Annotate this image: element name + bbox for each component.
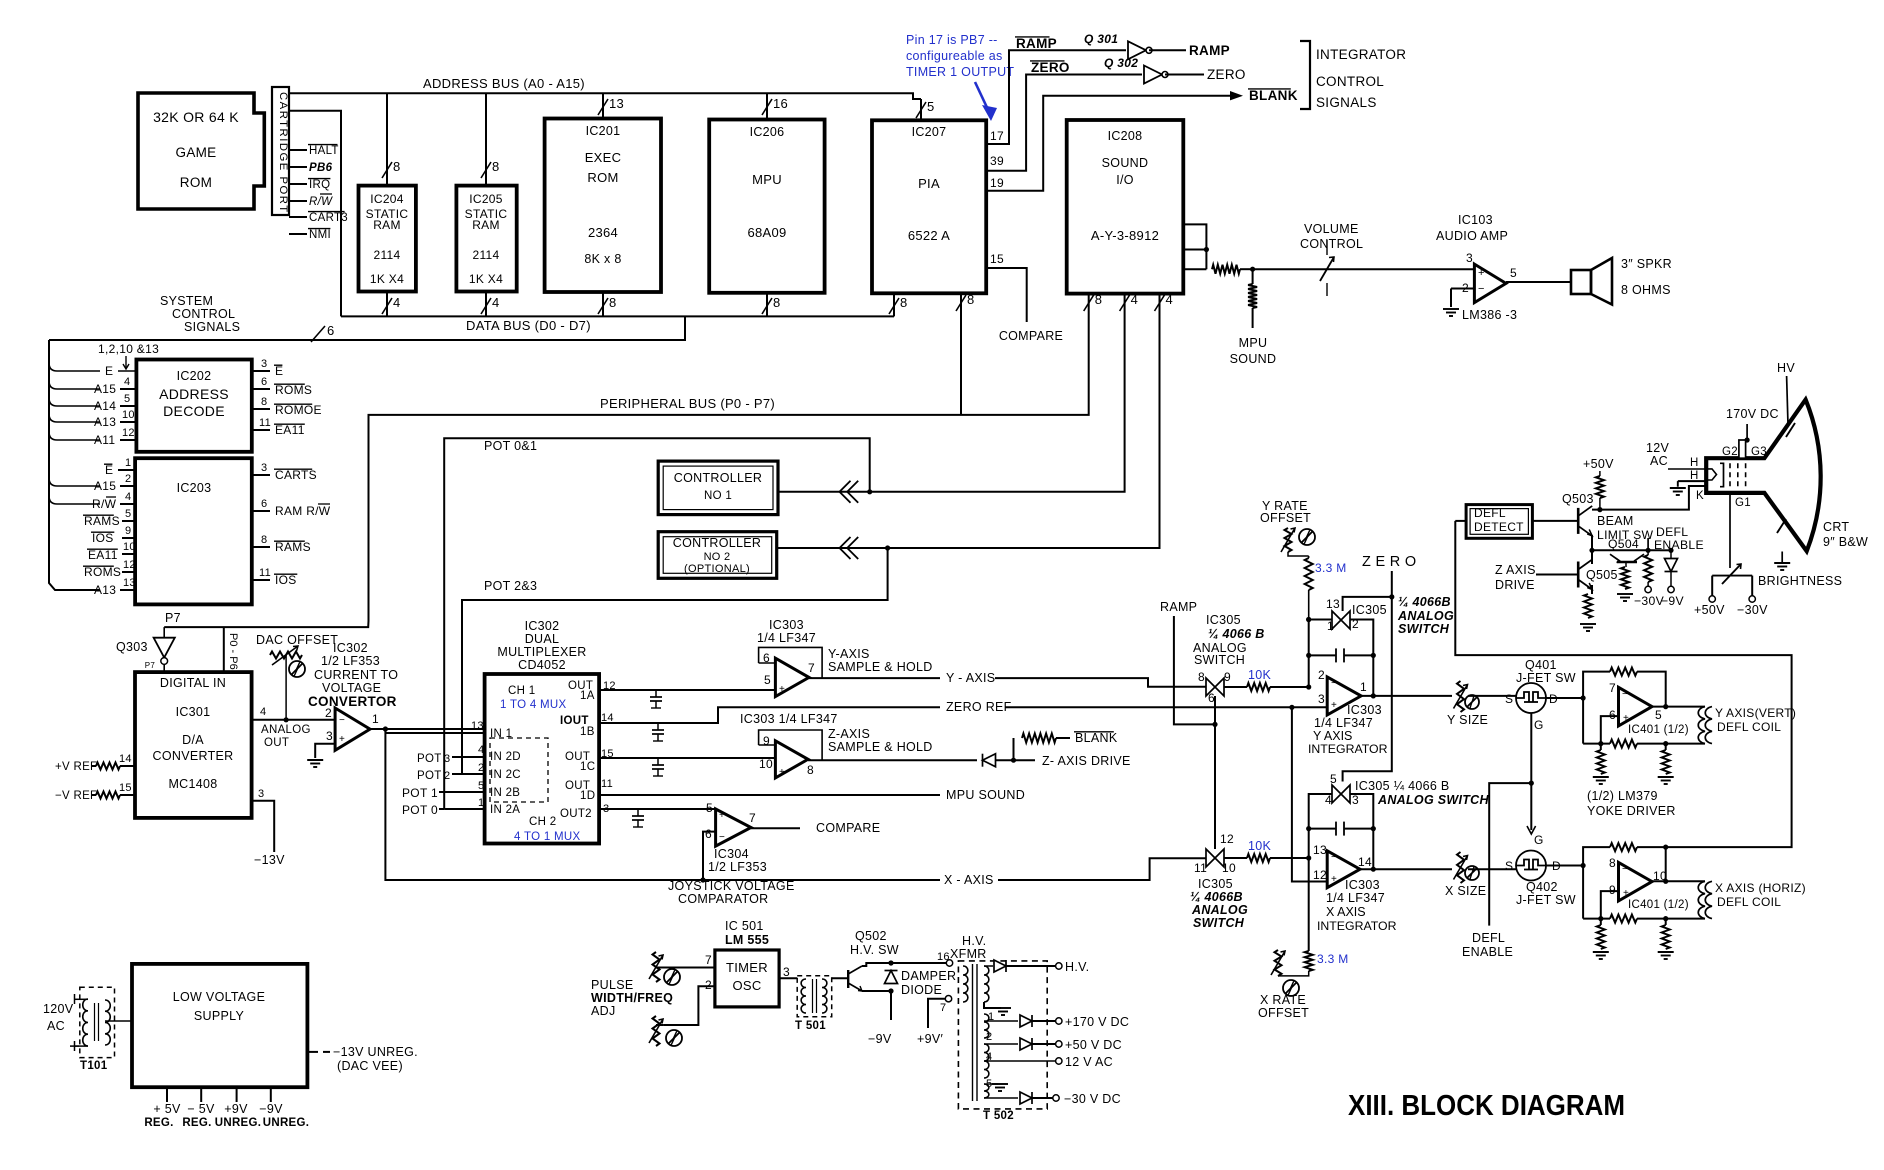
svg-text:−9V: −9V: [1661, 594, 1684, 608]
op-amp Z sample hold: [759, 730, 823, 778]
label Z-axis sample hold: [828, 727, 933, 754]
brightness pot: [1709, 564, 1755, 602]
svg-text:X RATE: X RATE: [1260, 993, 1306, 1007]
diode z-axis: [983, 754, 1017, 767]
svg-text:Q303: Q303: [116, 640, 148, 654]
svg-text:R/W: R/W: [309, 196, 333, 208]
svg-text:IC305: IC305: [1198, 877, 1233, 891]
peripheral bus label: [600, 396, 775, 411]
resistor X gnd right: [1658, 919, 1674, 959]
wire pin19 to BLANK: [986, 91, 1243, 191]
IC208 controller drop 4 first: [778, 292, 1138, 492]
svg-text:13: 13: [1326, 597, 1340, 611]
IC203 input ROMS pin12: [83, 559, 136, 579]
svg-text:Q502: Q502: [855, 929, 887, 943]
label +50V -30V brightness: [1694, 603, 1768, 617]
svg-text:DRIVE: DRIVE: [1495, 578, 1535, 592]
svg-text:EA11: EA11: [275, 423, 305, 437]
svg-text:CONTROL: CONTROL: [1316, 74, 1384, 89]
svg-text:9: 9: [1224, 670, 1231, 684]
label quarter 4066 analog switch Y reset: [1397, 595, 1454, 636]
IC202 output ROMOE pin8: [252, 396, 322, 417]
wire z-axis drive: [1014, 754, 1131, 768]
svg-text:BLANK: BLANK: [1249, 88, 1298, 103]
svg-text:SAMPLE & HOLD: SAMPLE & HOLD: [828, 660, 933, 674]
svg-text:IC305: IC305: [1352, 603, 1387, 617]
svg-text:15: 15: [119, 782, 132, 794]
IC207 pia box: [872, 120, 986, 293]
svg-text:1K X4: 1K X4: [370, 272, 404, 286]
svg-text:170V DC: 170V DC: [1726, 407, 1779, 421]
label 3in spkr 8 ohms: [1621, 257, 1672, 297]
svg-text:Y-AXIS: Y-AXIS: [828, 647, 870, 661]
T502 tap 4: [984, 1044, 992, 1078]
svg-text:14: 14: [119, 753, 132, 765]
svg-text:+: +: [1331, 700, 1337, 711]
resistor audio out: [1212, 265, 1255, 274]
svg-text:OUT: OUT: [264, 737, 289, 749]
T502 secondary hv winding: [984, 966, 1001, 1008]
svg-text:IN 2C: IN 2C: [490, 769, 521, 781]
wire pin17 to RAMP inverter: [986, 50, 1126, 144]
IC203 box: [135, 458, 252, 604]
svg-text:SOUND: SOUND: [1230, 352, 1277, 366]
svg-text:ROMOE: ROMOE: [275, 403, 322, 417]
svg-text:I/O: I/O: [1116, 173, 1134, 187]
svg-text:10K: 10K: [1248, 668, 1272, 682]
svg-text:+: +: [339, 734, 345, 745]
svg-text:IC201: IC201: [586, 124, 621, 138]
svg-text:UNREG.: UNREG.: [263, 1117, 310, 1129]
svg-text:IOS: IOS: [92, 531, 114, 545]
svg-text:6: 6: [1609, 708, 1616, 722]
svg-text:3: 3: [1318, 692, 1325, 706]
speaker: [1571, 258, 1612, 305]
IC302 current to voltage label: [308, 641, 398, 709]
hv diode: [984, 960, 1062, 972]
svg-text:ROMS: ROMS: [275, 383, 312, 397]
svg-text:4: 4: [478, 744, 484, 756]
analog switch Y reset IC305: [1326, 597, 1387, 633]
svg-text:CONTROLLER: CONTROLLER: [673, 536, 761, 550]
svg-text:4: 4: [492, 295, 500, 310]
label Y-axis sample hold: [828, 647, 933, 674]
svg-text:IC303: IC303: [769, 618, 804, 632]
svg-text:4: 4: [393, 295, 401, 310]
svg-text:13: 13: [123, 577, 136, 589]
IC203 input A13 pin13: [94, 577, 136, 597]
label +50V DC: [1065, 1038, 1122, 1052]
svg-text:LOW VOLTAGE: LOW VOLTAGE: [173, 990, 265, 1004]
svg-text:Q 301: Q 301: [1084, 32, 1118, 46]
svg-text:3: 3: [261, 358, 267, 370]
label 1,2,10&13: [98, 342, 159, 369]
svg-text:IC 501: IC 501: [725, 919, 764, 933]
svg-text:3.3 M: 3.3 M: [1317, 952, 1349, 966]
transistor Q504: [1608, 537, 1644, 567]
op-amp Y integrator IC303: [1318, 668, 1367, 715]
svg-text:3: 3: [444, 753, 450, 765]
svg-text:DIGITAL IN: DIGITAL IN: [160, 676, 226, 690]
wire to volume pot: [1253, 268, 1474, 270]
svg-text:A13: A13: [94, 415, 116, 429]
jfet Q401: [1505, 658, 1576, 732]
svg-text:+: +: [719, 810, 725, 821]
svg-text:¼ 4066 B: ¼ 4066 B: [1208, 627, 1265, 641]
label X integrator: [1317, 878, 1397, 933]
svg-text:R/W: R/W: [92, 497, 117, 511]
svg-text:−: −: [339, 715, 345, 726]
IC202 address decode box: [136, 360, 251, 452]
svg-text:7: 7: [1609, 681, 1616, 695]
svg-text:S: S: [1505, 692, 1513, 706]
IC203 output RAM R/W pin6: [252, 498, 331, 518]
IC208 sound io box: [1067, 120, 1184, 294]
svg-text:PB6: PB6: [309, 162, 333, 174]
svg-text:A15: A15: [94, 479, 116, 493]
svg-text:8K x 8: 8K x 8: [584, 252, 621, 266]
svg-text:P7: P7: [145, 661, 156, 670]
wire Y reset switch leads: [1306, 617, 1373, 656]
svg-text:−: −: [1478, 283, 1485, 295]
svg-text:EA11: EA11: [88, 548, 118, 562]
svg-text:X AXIS: X AXIS: [1326, 905, 1366, 919]
IC201 drop to data bus with 8: [598, 292, 617, 316]
svg-text:OFFSET: OFFSET: [1260, 511, 1311, 525]
svg-text:ROMS: ROMS: [84, 565, 121, 579]
svg-text:TIMER: TIMER: [726, 960, 768, 975]
svg-text:+50V: +50V: [1583, 457, 1614, 471]
IC203 input E pin1: [104, 457, 135, 477]
svg-text:+V REF: +V REF: [55, 761, 97, 773]
svg-text:MC1408: MC1408: [168, 777, 217, 791]
IC202 input A14: [49, 393, 136, 413]
svg-text:RAMS: RAMS: [84, 514, 120, 528]
svg-text:1B: 1B: [580, 726, 595, 738]
svg-text:XFMR: XFMR: [950, 947, 987, 961]
IC202 input E: [49, 363, 136, 378]
defl enable resistor: [1644, 548, 1652, 593]
svg-text:4 TO 1 MUX: 4 TO 1 MUX: [514, 831, 581, 843]
wire Q502 emitter: [862, 988, 894, 1020]
svg-text:8: 8: [1198, 670, 1205, 684]
svg-text:BRIGHTNESS: BRIGHTNESS: [1758, 574, 1842, 588]
svg-text:15: 15: [990, 252, 1004, 266]
svg-text:IC303: IC303: [1347, 703, 1382, 717]
mux out2 wire to comparator: [599, 808, 716, 810]
inverter Q301: [1084, 32, 1152, 59]
svg-text:Y - AXIS: Y - AXIS: [946, 671, 995, 685]
jfet Q402: [1505, 833, 1561, 881]
svg-text:ENABLE: ENABLE: [1462, 945, 1513, 959]
label Y integrator: [1308, 703, 1388, 756]
label -30V DC: [1064, 1092, 1121, 1106]
svg-text:DEFL COIL: DEFL COIL: [1717, 895, 1781, 909]
label -9V crt: [1661, 594, 1684, 608]
svg-text:3: 3: [1352, 793, 1359, 807]
svg-text:P0 - P6: P0 - P6: [227, 633, 239, 670]
svg-text:DATA BUS (D0 - D7): DATA BUS (D0 - D7): [466, 318, 591, 333]
capacitor Y integrator: [1306, 648, 1376, 662]
wire Q505 collector: [1589, 548, 1594, 564]
cap on out2: [632, 809, 644, 827]
svg-text:−: −: [1622, 689, 1628, 700]
label HV: [1777, 361, 1795, 425]
transistor Q505: [1578, 560, 1618, 590]
label +170V DC: [1065, 1015, 1129, 1029]
label pulse width freq adj: [591, 978, 673, 1018]
svg-text:Pin 17 is PB7 --: Pin 17 is PB7 --: [906, 33, 998, 47]
IC206 mpu box: [709, 120, 824, 293]
CRT flare slashes: [1777, 423, 1795, 533]
svg-text:2: 2: [705, 978, 712, 992]
T502 primary winding: [963, 966, 968, 1002]
svg-text:Q505: Q505: [1586, 568, 1618, 582]
X rate offset pot: [1258, 950, 1309, 1020]
svg-text:H: H: [1690, 457, 1699, 469]
svg-text:12: 12: [123, 559, 136, 571]
zero ref junction: [1005, 705, 1327, 882]
svg-text:IC303: IC303: [1345, 878, 1380, 892]
svg-text:−: −: [1331, 678, 1337, 689]
svg-text:G2: G2: [1722, 446, 1738, 458]
svg-text:8: 8: [609, 295, 617, 310]
svg-text:SIGNALS: SIGNALS: [184, 320, 240, 334]
svg-text:ADDRESS: ADDRESS: [159, 386, 229, 402]
svg-text:POT 1: POT 1: [402, 786, 438, 800]
svg-text:NO 1: NO 1: [704, 490, 732, 502]
inverter Q302: [1104, 56, 1168, 84]
svg-text:J-FET SW: J-FET SW: [1516, 671, 1576, 685]
svg-text:1/2 LF353: 1/2 LF353: [708, 860, 767, 874]
label 170V DC: [1726, 407, 1779, 443]
op-amp IC401 X yoke driver: [1609, 856, 1667, 901]
svg-text:CD4052: CD4052: [518, 658, 566, 672]
svg-text:7: 7: [808, 661, 815, 675]
svg-text:10K: 10K: [1248, 839, 1272, 853]
svg-text:6: 6: [261, 376, 267, 388]
T502 secondary winding 1: [984, 1011, 994, 1038]
svg-text:1: 1: [478, 797, 484, 809]
svg-text:T101: T101: [80, 1060, 108, 1072]
defl detect box: [1466, 505, 1532, 539]
svg-text:MPU: MPU: [1239, 336, 1268, 350]
svg-text:HV: HV: [1777, 361, 1795, 375]
IC202 output ROMS pin6: [252, 376, 312, 397]
label LM386-3: [1462, 308, 1517, 322]
svg-text:1 TO 4 MUX: 1 TO 4 MUX: [500, 699, 567, 711]
svg-text:ZERO: ZERO: [1207, 67, 1246, 82]
svg-text:A-Y-3-8912: A-Y-3-8912: [1091, 228, 1159, 243]
IC208 controller drop 4 second: [777, 292, 1173, 548]
svg-text:G: G: [1534, 718, 1544, 732]
label zero ref: [946, 700, 1012, 714]
label IC303 1/4 LF347 Y: [757, 618, 816, 645]
svg-text:6522 A: 6522 A: [908, 228, 950, 243]
transformer T101: [80, 987, 115, 1072]
wire defl detect to Q503: [1532, 520, 1578, 522]
svg-text:SWITCH: SWITCH: [1193, 916, 1245, 930]
svg-text:Y SIZE: Y SIZE: [1447, 713, 1488, 727]
svg-text:1C: 1C: [580, 761, 595, 773]
analog switch Y IC305 labels: [1193, 613, 1265, 667]
svg-text:IC401 (1/2): IC401 (1/2): [1628, 724, 1689, 736]
damper diode: [885, 969, 957, 997]
svg-text:Z- AXIS DRIVE: Z- AXIS DRIVE: [1042, 754, 1131, 768]
wire Y switch control vertical: [1214, 696, 1216, 849]
svg-text:COMPARE: COMPARE: [999, 329, 1063, 343]
resistor Q505 emitter: [1580, 585, 1596, 631]
label Q402 jfet: [1516, 880, 1576, 907]
ground tap5: [984, 1084, 1008, 1091]
svg-text:Q401: Q401: [1525, 658, 1557, 672]
svg-text:3: 3: [258, 788, 264, 800]
wire X int vertical: [1308, 829, 1310, 951]
mux pot input wires: [402, 753, 485, 817]
svg-text:8: 8: [393, 159, 401, 174]
svg-text:OFFSET: OFFSET: [1258, 1006, 1309, 1020]
DAC OFFSET pot: [256, 633, 338, 720]
svg-text:2: 2: [986, 1031, 992, 1043]
svg-text:6: 6: [1208, 691, 1215, 705]
svg-text:IRQ: IRQ: [309, 179, 330, 191]
svg-text:IOS: IOS: [275, 573, 297, 587]
svg-text:5: 5: [478, 780, 484, 792]
T502 tap 2: [986, 1031, 992, 1043]
wire to RAMP out: [1149, 43, 1230, 58]
wire Q503 emitter down: [1592, 535, 1660, 550]
net label ZERO bar: [1030, 60, 1070, 75]
svg-text:IN 2D: IN 2D: [490, 751, 521, 763]
mux out 1D wire mpu sound: [599, 794, 940, 796]
label -9V timer: [868, 1032, 892, 1046]
data bus wire: [49, 316, 894, 340]
svg-text:2114: 2114: [472, 248, 499, 262]
svg-text:1/4 LF347: 1/4 LF347: [1326, 891, 1385, 905]
svg-text:D/A: D/A: [182, 733, 204, 747]
svg-text:X SIZE: X SIZE: [1445, 884, 1486, 898]
svg-text:POT 0: POT 0: [402, 803, 438, 817]
svg-text:VOLUME: VOLUME: [1304, 222, 1359, 236]
svg-text:G1: G1: [1735, 497, 1751, 509]
transistor Q303 buffer: [116, 627, 175, 672]
label HV out: [1065, 960, 1089, 974]
CRT neck inner: [1706, 463, 1723, 486]
svg-text:A14: A14: [94, 399, 116, 413]
svg-text:AC: AC: [1650, 454, 1668, 468]
label LM379 yoke driver: [1587, 789, 1676, 818]
svg-text:4: 4: [260, 706, 266, 718]
svg-text:A11: A11: [94, 433, 115, 447]
svg-text:POT: POT: [417, 753, 442, 765]
ground IC302: [307, 760, 323, 767]
wire x-axis right: [998, 858, 1206, 880]
svg-text:5: 5: [927, 99, 935, 114]
svg-text:3.3 M: 3.3 M: [1315, 561, 1347, 575]
resistor Q504 base: [1617, 567, 1633, 601]
svg-text:−: −: [1331, 852, 1337, 863]
svg-text:YOKE DRIVER: YOKE DRIVER: [1587, 804, 1676, 818]
T502 tap 5: [984, 1078, 992, 1098]
IC203 input EA11 pin10: [87, 541, 136, 562]
transformer T501: [795, 976, 832, 1032]
label -30V: [1634, 594, 1665, 608]
svg-text:13: 13: [1313, 843, 1327, 857]
resistor +50V Q503: [1583, 457, 1614, 512]
svg-text:17: 17: [990, 129, 1004, 143]
integrator control signals text: [1316, 47, 1406, 110]
svg-text:BLANK: BLANK: [1075, 731, 1118, 745]
CRT funnel: [1706, 400, 1820, 551]
cartridge port pin HALT: [289, 145, 339, 157]
svg-text:CONVERTER: CONVERTER: [153, 749, 234, 763]
svg-text:−30V: −30V: [1737, 603, 1768, 617]
svg-text:E: E: [275, 364, 283, 378]
svg-text:1: 1: [125, 457, 131, 469]
bus drop to IC201 with 13: [598, 93, 624, 118]
svg-text:EXEC: EXEC: [585, 150, 622, 165]
svg-text:39: 39: [990, 154, 1004, 168]
svg-text:DEFL COIL: DEFL COIL: [1717, 720, 1781, 734]
wire Y driver out: [1652, 704, 1705, 709]
pot 2&3 wire: [462, 545, 890, 758]
cap on 1A: [650, 690, 662, 708]
svg-text:ADDRESS BUS (A0 - A15): ADDRESS BUS (A0 - A15): [423, 76, 585, 91]
resistor -V REF: [55, 782, 135, 802]
wire P0-P6 drop: [224, 627, 239, 672]
cartridge port pin PB6: [289, 162, 333, 174]
label X axis horiz defl coil: [1715, 881, 1806, 909]
svg-text:T 501: T 501: [795, 1020, 826, 1032]
svg-text:IC103: IC103: [1458, 213, 1493, 227]
svg-text:4: 4: [1325, 793, 1332, 807]
svg-text:LM 555: LM 555: [725, 933, 769, 947]
svg-text:MULTIPLEXER: MULTIPLEXER: [497, 645, 586, 659]
label G1: [1735, 497, 1751, 509]
wire zero vertical: [1343, 571, 1395, 782]
ground audio amp: [1443, 309, 1459, 316]
cartridge port pin IRQ: [289, 179, 330, 191]
data bus label: [466, 318, 591, 333]
net label BLANK bar: [1248, 88, 1298, 103]
svg-text:SWITCH: SWITCH: [1194, 653, 1245, 667]
svg-text:SAMPLE & HOLD: SAMPLE & HOLD: [828, 740, 933, 754]
svg-text:TIMER 1 OUTPUT: TIMER 1 OUTPUT: [906, 65, 1014, 79]
wire X driver out: [1652, 879, 1705, 884]
svg-text:IC303 1/4 LF347: IC303 1/4 LF347: [740, 712, 838, 726]
integrator control signals bracket: [1300, 41, 1310, 109]
svg-text:IC207: IC207: [912, 125, 947, 139]
svg-text:(OPTIONAL): (OPTIONAL): [684, 563, 750, 575]
resistor X gnd left: [1593, 919, 1609, 959]
svg-text:¼ 4066B: ¼ 4066B: [1190, 890, 1243, 904]
system control signals label: [160, 294, 240, 334]
label IC303 1/4 LF347 Z: [740, 712, 838, 726]
mux out 1B wire zero ref: [599, 707, 940, 723]
svg-text:DETECT: DETECT: [1474, 520, 1524, 534]
svg-text:1A: 1A: [580, 690, 595, 702]
svg-text:XIII. BLOCK DIAGRAM: XIII. BLOCK DIAGRAM: [1348, 1090, 1625, 1122]
IC208 bus pin 8: [1084, 292, 1103, 311]
svg-text:OSC: OSC: [732, 978, 761, 993]
svg-text:2: 2: [325, 706, 332, 720]
svg-text:1: 1: [1360, 680, 1367, 694]
svg-text:CARTRIDGE PORT: CARTRIDGE PORT: [277, 92, 289, 214]
svg-text:DIODE: DIODE: [901, 983, 942, 997]
bus drop to IC204 with 8: [382, 93, 401, 185]
svg-text:P7: P7: [165, 611, 181, 625]
address bus label: [423, 76, 585, 91]
